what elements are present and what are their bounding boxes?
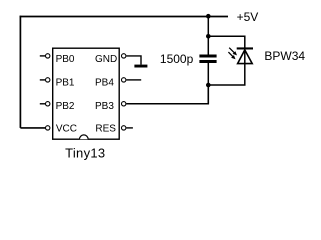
svg-text:GND: GND <box>95 54 117 65</box>
pin GND circle <box>122 54 126 58</box>
wire capacitor branch upper <box>207 16 209 54</box>
pin PB0 stub <box>40 55 45 57</box>
pin PB1 circle <box>46 78 50 82</box>
pin PB1 stub <box>40 79 45 81</box>
pin VCC circle <box>46 126 50 130</box>
ground <box>134 65 147 68</box>
svg-text:BPW34: BPW34 <box>264 49 305 63</box>
svg-text:PB0: PB0 <box>56 54 75 65</box>
svg-text:PB3: PB3 <box>95 101 114 112</box>
pin PB4 stub <box>126 79 141 81</box>
junction capacitor/diode top <box>206 34 211 39</box>
photodiode light arrow 2 <box>228 52 235 59</box>
wire left supply rail <box>19 16 21 128</box>
photodiode D1 cathode bar <box>237 47 253 49</box>
svg-text:Tiny13: Tiny13 <box>65 146 105 161</box>
photodiode light arrow 1 <box>229 48 237 56</box>
pin PB0 circle <box>46 54 50 58</box>
capacitor C1 plates <box>199 55 216 64</box>
svg-text:+5V: +5V <box>237 10 259 24</box>
junction at +5V rail <box>206 14 211 19</box>
IC U1 Tiny13 body <box>53 48 120 139</box>
pin PB2 circle <box>46 102 50 106</box>
svg-text:PB2: PB2 <box>56 101 75 112</box>
pin RES stub <box>126 127 133 129</box>
pin PB2 stub <box>40 103 45 105</box>
wire PB3 to capacitor/diode node <box>126 85 208 104</box>
wire diode branch bottom <box>208 49 245 85</box>
svg-text:PB4: PB4 <box>95 78 114 89</box>
wire VCC connection <box>20 127 45 129</box>
pin PB4 circle <box>122 78 126 82</box>
wire diode branch top <box>208 36 245 49</box>
svg-text:PB1: PB1 <box>56 78 75 89</box>
wire capacitor branch lower <box>207 63 209 104</box>
svg-text:1500p: 1500p <box>160 52 194 66</box>
photodiode D1 triangle <box>238 50 253 64</box>
wire +5V top rail <box>20 16 228 18</box>
svg-text:VCC: VCC <box>56 124 77 135</box>
pin RES circle <box>122 126 126 130</box>
svg-text:RES: RES <box>95 124 116 135</box>
junction capacitor/diode bottom <box>206 83 211 88</box>
wire GND to ground <box>126 56 141 65</box>
pin PB3 circle <box>122 102 126 106</box>
